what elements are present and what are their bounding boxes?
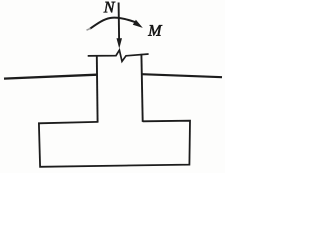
force N arrow line [118,3,121,40]
column right wall [141,54,142,122]
column left wall [96,56,99,123]
label N [104,2,116,13]
column cap with break line [88,50,149,61]
ground line right [142,74,222,77]
label M [148,25,162,35]
moment M arc [90,18,136,29]
foundation outline [39,121,190,167]
moment M arc faint tail [87,28,91,30]
force N arrowhead [117,38,123,48]
moment M arrowhead [133,20,143,28]
ground line left [4,75,97,79]
